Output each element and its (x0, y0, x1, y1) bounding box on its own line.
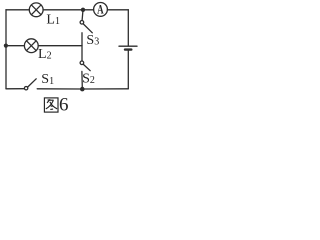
node left junction dot (4, 44, 8, 48)
wire right vertical upper (127, 10, 129, 46)
node top junction dot (81, 8, 85, 12)
wire left vertical (5, 10, 7, 89)
svg-text:S3: S3 (86, 33, 99, 48)
svg-text:L2: L2 (38, 47, 52, 62)
battery short plate (125, 48, 131, 50)
switch S1 (6, 79, 36, 90)
svg-text:6: 6 (59, 95, 69, 116)
wire top-left segment (6, 9, 29, 11)
wire right vertical lower (127, 51, 129, 89)
switch S2 (80, 61, 90, 88)
wire middle branch right (38, 45, 82, 47)
node bottom junction dot (80, 87, 85, 92)
svg-text:A: A (97, 3, 104, 17)
wire bottom middle segment (S1 right terminal) (37, 88, 82, 90)
svg-text:S2: S2 (82, 71, 95, 86)
lamp L1 (29, 3, 43, 17)
ammeter A (94, 2, 108, 16)
switch S3 (80, 10, 92, 61)
wire bottom right segment (82, 88, 128, 90)
wire L1 to ammeter (43, 9, 94, 11)
wire ammeter to right corner (107, 9, 128, 11)
caption 图6 : hand-drawn 图 glyph (44, 98, 58, 112)
svg-text:S1: S1 (41, 72, 54, 87)
lamp L2 (24, 39, 38, 53)
battery long plate (119, 45, 137, 47)
svg-text:L1: L1 (46, 12, 60, 27)
wire middle branch left (6, 45, 24, 47)
